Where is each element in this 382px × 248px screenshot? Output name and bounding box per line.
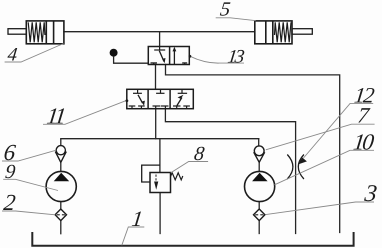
- leader 2: [2, 211, 55, 215]
- wire: check6 to pump9: [60, 162, 62, 171]
- relief valve internal arrow: [155, 175, 157, 183]
- wire: manifold to relief valve: [159, 139, 161, 173]
- pump P10: [245, 171, 275, 201]
- wire: filter2 to tank: [60, 221, 62, 234]
- wire: pump9 to filter2: [60, 202, 62, 210]
- relief valve spring: [171, 173, 183, 180]
- pump P9: [46, 171, 76, 201]
- leader 1: [122, 227, 145, 245]
- leader 9: [3, 179, 58, 190]
- leader 10: [275, 150, 375, 185]
- valve11 right cell arrow passage: [177, 98, 182, 106]
- pushbutton actuator dot: [110, 49, 149, 64]
- valve11 right cell top blocked port: [178, 89, 187, 93]
- wire: valve13 bottom-right port to right drain: [166, 65, 340, 233]
- check valve V6: [55, 146, 66, 163]
- valve11 middle cell bottom blocked ports: [153, 106, 169, 109]
- valve11 left cell bottom blocked ports: [129, 106, 145, 109]
- check valve V7: [254, 146, 265, 162]
- wire: valve13 top port stub: [159, 32, 161, 47]
- wire: check7 to pump10: [258, 162, 260, 171]
- leader 8: [171, 162, 208, 173]
- wire: valve11 right port to throttle drain: [165, 109, 295, 234]
- leader 13: [190, 56, 244, 63]
- relief valve pilot line: [142, 165, 160, 182]
- leader 11: [43, 100, 127, 124]
- leader 12 with arrow: [304, 103, 374, 158]
- relief valve U8: [142, 165, 183, 192]
- wire: filter3 to tank: [258, 221, 260, 234]
- wire: cylinder4 to cylinder5 main line: [64, 31, 255, 33]
- leader 3: [266, 202, 374, 215]
- valve11 left cell arrow passage: [138, 95, 143, 103]
- valve11 left cell top blocked port: [133, 89, 142, 93]
- wire: check7 riser: [258, 139, 260, 146]
- wire: check6 riser: [60, 139, 62, 145]
- valve13 left cell bottom blocked port: [151, 63, 158, 65]
- leader 5: [216, 18, 256, 21]
- valve13 left cell blocked top port: [154, 47, 165, 51]
- valve11 middle cell top blocked port: [156, 89, 164, 93]
- leader 6: [2, 150, 56, 161]
- wire: relief valve to tank: [159, 193, 161, 234]
- tank: [32, 232, 353, 246]
- throttle (flow restrictor) 12: [287, 155, 304, 180]
- cylinder C5: [255, 21, 312, 44]
- valve U13 (3/2 directional valve): [148, 47, 189, 65]
- wire: pump pressure manifold: [61, 138, 259, 140]
- valve13 left cell diagonal passage: [159, 51, 164, 62]
- filter F2: [55, 209, 66, 221]
- valve U11 (3-position directional valve): [127, 89, 194, 108]
- filter F3: [254, 209, 265, 221]
- wire: valve13 to valve11: [155, 65, 157, 90]
- valve13 right cell bottom blocked port: [182, 63, 187, 65]
- cylinder C4: [8, 21, 64, 44]
- wire: pump10 to filter3: [258, 202, 260, 210]
- wire: valve11 center port to relief line: [155, 109, 157, 139]
- leader 4: [5, 44, 64, 63]
- valve11 right cell bottom blocked ports: [173, 106, 190, 109]
- valve13 right cell arrow passage: [173, 50, 175, 65]
- leader 7: [266, 124, 375, 150]
